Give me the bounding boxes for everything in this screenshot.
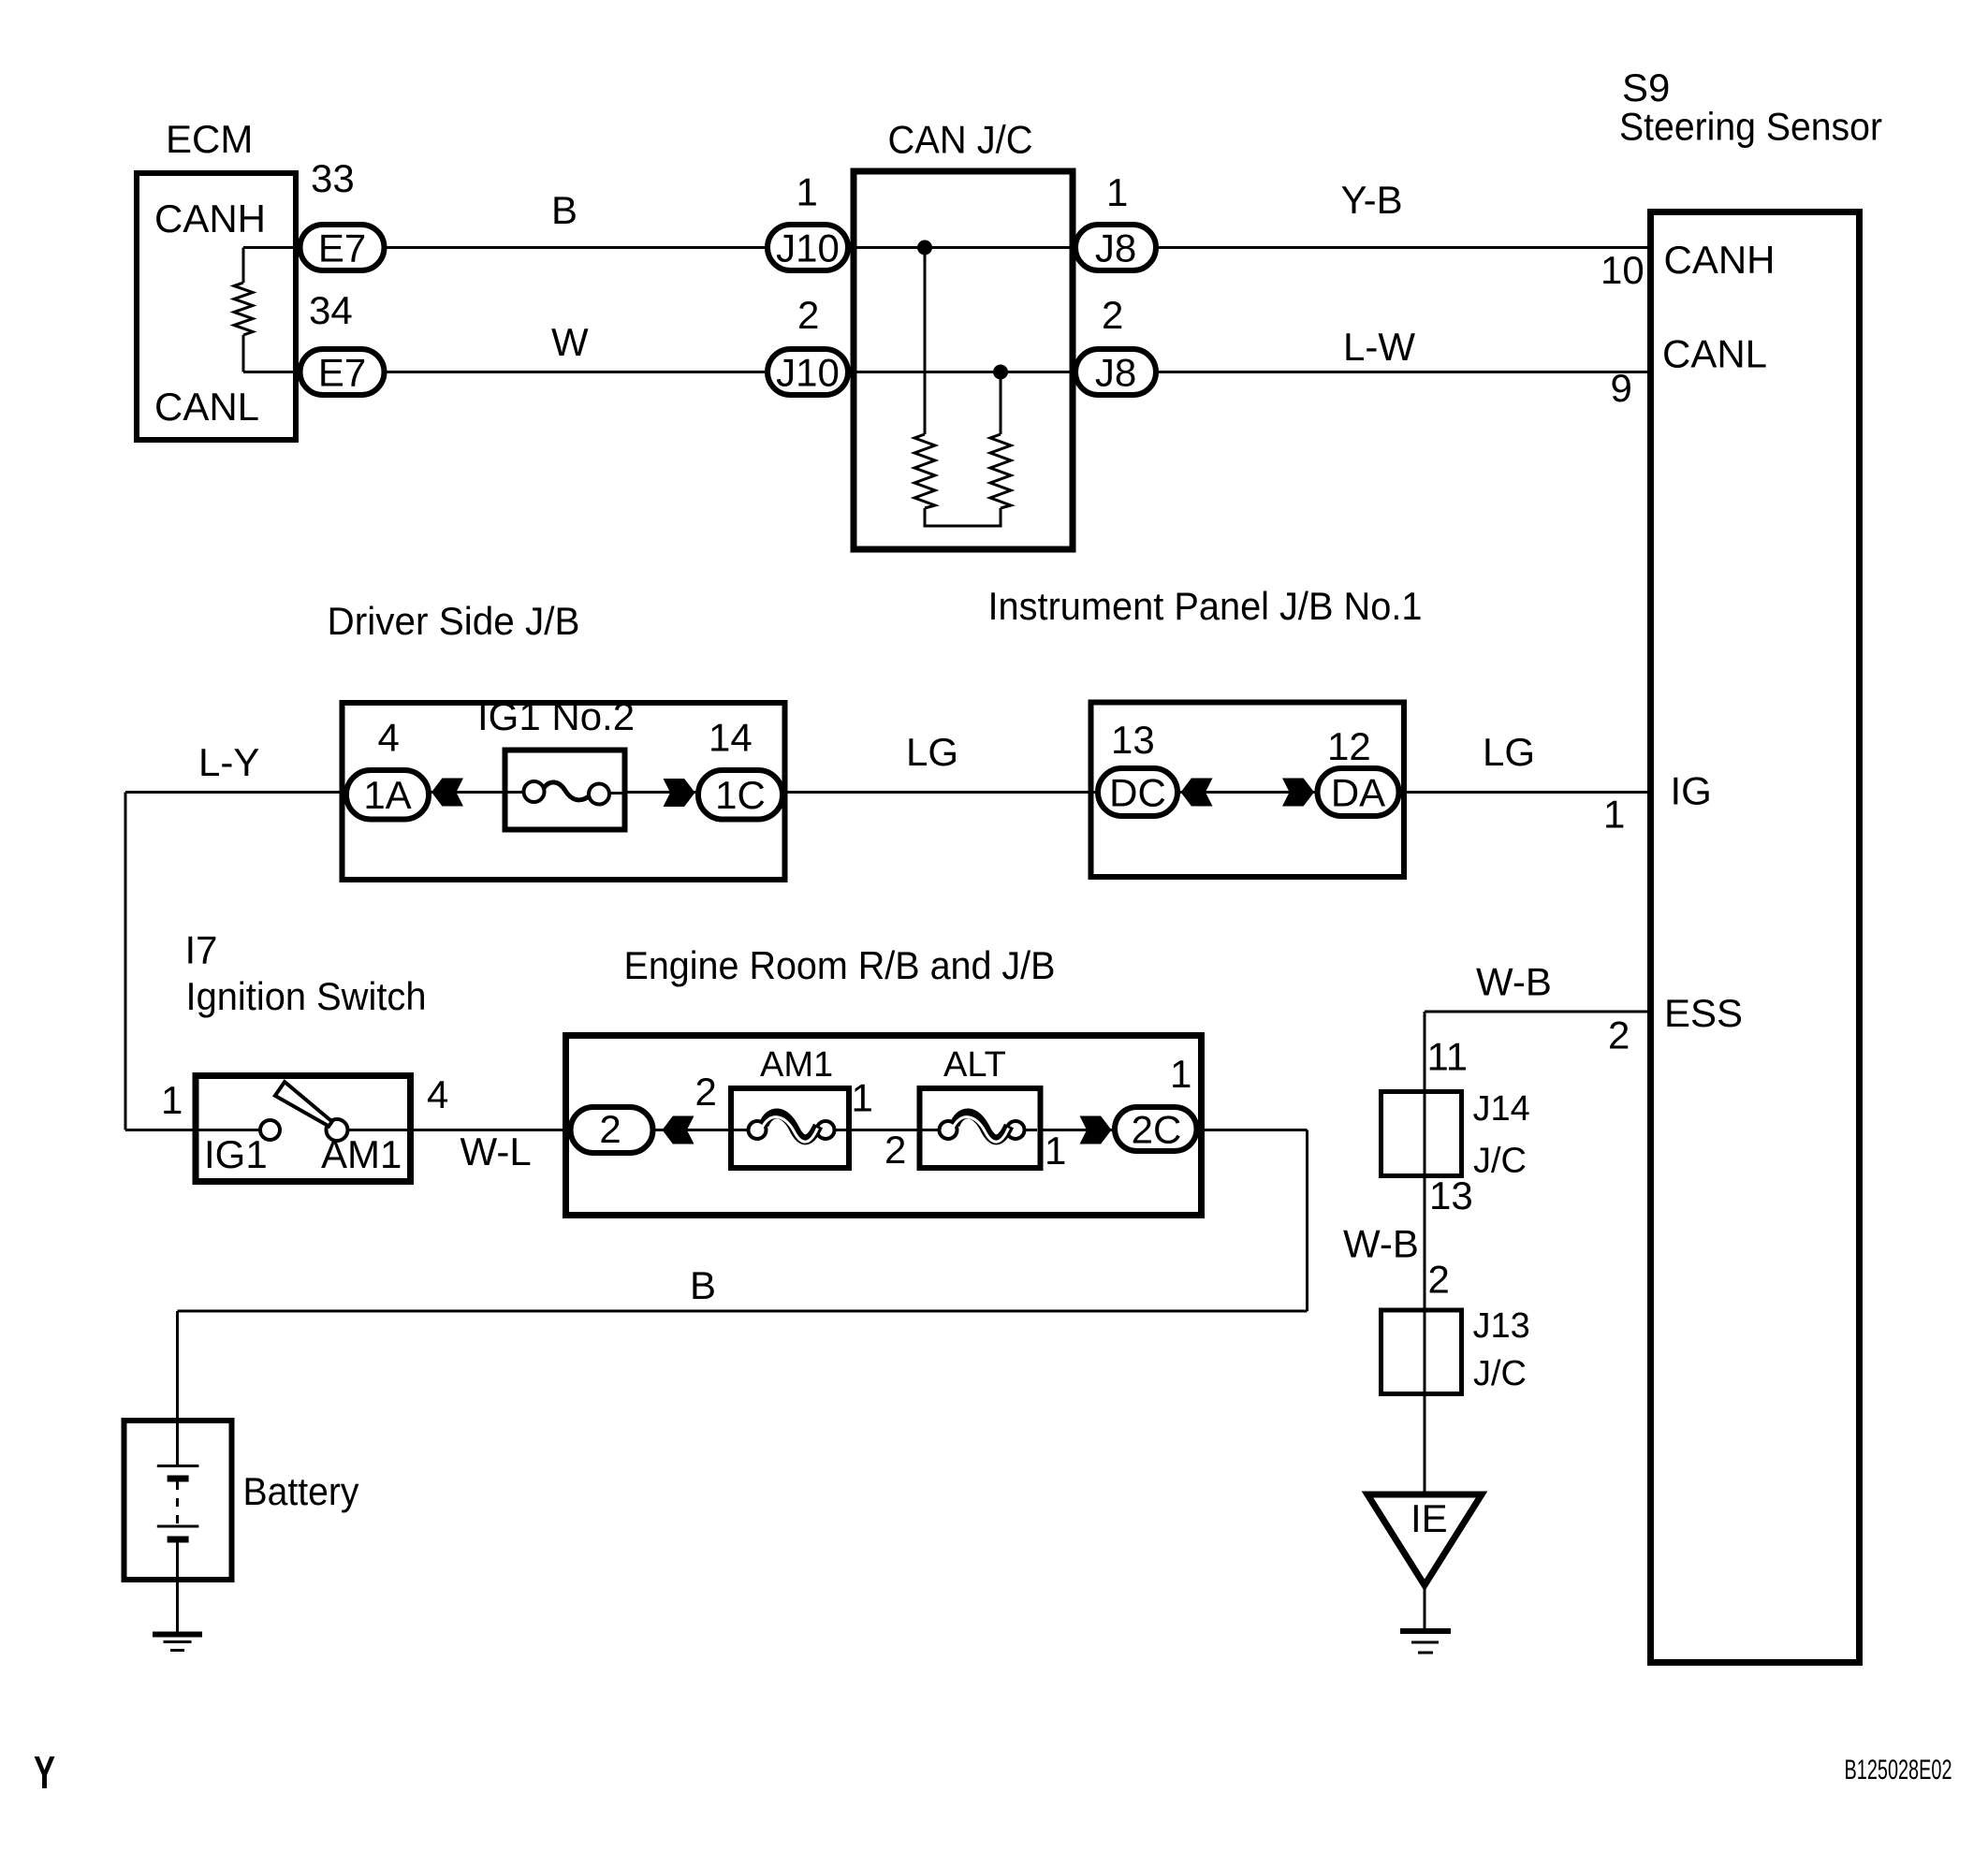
svg-text:2: 2	[797, 293, 819, 337]
svg-text:IG1 No.2: IG1 No.2	[477, 694, 635, 738]
arrow into connector 2	[663, 1116, 694, 1144]
connector E7 pin 34	[300, 349, 385, 395]
fuse IG1 No.2 box	[505, 751, 625, 830]
svg-text:W-L: W-L	[460, 1130, 532, 1173]
svg-text:IG: IG	[1671, 769, 1712, 813]
Engine Room R/B and J/B box	[566, 1036, 1202, 1216]
svg-text:W-B: W-B	[1343, 1222, 1419, 1266]
svg-text:LG: LG	[906, 730, 958, 774]
svg-text:1: 1	[1045, 1129, 1066, 1173]
wire into ignition switch pin 1	[125, 1129, 260, 1131]
wire left vertical L-Y down to ignition switch	[124, 793, 127, 1130]
svg-text:AM1: AM1	[760, 1045, 833, 1085]
svg-text:9: 9	[1611, 366, 1632, 410]
wire CAN J/C resistor bottoms	[925, 508, 1001, 526]
connector DC pin 13	[1098, 768, 1177, 816]
svg-text:B: B	[551, 188, 577, 232]
svg-text:4: 4	[427, 1072, 448, 1116]
svg-text:10: 10	[1601, 248, 1644, 292]
svg-text:1: 1	[1603, 793, 1625, 837]
svg-text:B: B	[690, 1263, 716, 1307]
wire ECM internal CANL lead	[242, 335, 245, 372]
svg-text:14: 14	[709, 716, 753, 760]
svg-text:Ignition Switch: Ignition Switch	[186, 974, 427, 1018]
wire ALT lead left	[923, 1129, 942, 1131]
resistor ECM terminating	[234, 283, 253, 335]
svg-text:CANH: CANH	[1664, 238, 1776, 282]
ECM box	[137, 173, 296, 440]
svg-text:13: 13	[1111, 718, 1155, 762]
battery symbol	[157, 1465, 199, 1467]
steering sensor S9 box	[1651, 212, 1860, 1663]
svg-text:L-Y: L-Y	[198, 740, 259, 784]
svg-text:2: 2	[1102, 293, 1123, 337]
fusible link ALT box	[920, 1088, 1041, 1168]
connector J10 pin 2	[767, 349, 848, 395]
connector 2C pin 1	[1115, 1107, 1197, 1151]
svg-text:Instrument Panel J/B No.1: Instrument Panel J/B No.1	[988, 584, 1423, 628]
wire ESS (W-B)	[1425, 1011, 1651, 1013]
fusible link AM1 element	[749, 1121, 767, 1139]
wire 2C down	[1306, 1130, 1308, 1312]
svg-text:2: 2	[1428, 1258, 1450, 1302]
Driver Side J/B box	[343, 703, 785, 880]
svg-text:S9: S9	[1622, 66, 1670, 109]
arrow into DA	[1282, 779, 1314, 807]
fusible link AM1 box	[731, 1088, 849, 1168]
connector 2 (engine room)	[571, 1107, 653, 1153]
wire CANL (ECM to S9, colour W / L-W)	[243, 371, 1651, 373]
wire B horizontal	[178, 1310, 1308, 1313]
CAN J/C box	[854, 171, 1073, 549]
svg-text:2: 2	[599, 1107, 621, 1151]
svg-text:2: 2	[1608, 1013, 1630, 1057]
ground battery	[153, 1632, 202, 1638]
arrow into DC	[1181, 779, 1213, 807]
node junction dot CANH	[917, 240, 932, 255]
svg-text:2: 2	[695, 1070, 717, 1114]
svg-text:CANL: CANL	[1662, 332, 1767, 376]
resistor CAN J/C no.1	[914, 434, 935, 508]
ignition switch lever	[275, 1082, 332, 1126]
connector 1A pin 4	[346, 770, 429, 820]
svg-text:J13: J13	[1473, 1306, 1530, 1346]
svg-text:ECM: ECM	[166, 117, 253, 161]
wire battery positive lead	[176, 1311, 179, 1466]
resistor CAN J/C no.2	[990, 434, 1011, 508]
connector J8 pin 1	[1075, 225, 1156, 270]
svg-text:2C: 2C	[1132, 1108, 1182, 1152]
wire ECM internal CANH lead	[242, 248, 245, 284]
wire W-B vertical through J14 and J13	[1424, 1012, 1426, 1494]
ignition switch IG1 contact	[260, 1120, 280, 1140]
junction connector J13 box	[1381, 1310, 1462, 1394]
svg-text:E7: E7	[318, 351, 366, 395]
svg-text:I7: I7	[185, 928, 218, 972]
junction connector J14 box	[1381, 1092, 1462, 1176]
battery box	[124, 1421, 232, 1580]
svg-text:J8: J8	[1095, 351, 1136, 395]
svg-text:CANL: CANL	[154, 385, 259, 429]
connector 1C pin 14	[698, 770, 782, 820]
wire IG row (L-Y / LG to S9 pin 1)	[125, 791, 1651, 794]
svg-text:12: 12	[1327, 724, 1371, 768]
svg-text:ALT: ALT	[943, 1045, 1006, 1085]
arrow into 1A	[431, 779, 463, 807]
svg-text:1: 1	[852, 1076, 873, 1120]
svg-text:E7: E7	[318, 226, 366, 270]
svg-text:Battery: Battery	[243, 1469, 359, 1513]
fusible link ALT element	[940, 1121, 957, 1139]
svg-text:Y: Y	[34, 1748, 55, 1799]
svg-text:J/C: J/C	[1473, 1354, 1527, 1393]
ignition switch AM1 contact	[327, 1119, 348, 1141]
arrow into 1C	[664, 779, 695, 807]
svg-text:Steering Sensor: Steering Sensor	[1619, 105, 1882, 149]
svg-text:1A: 1A	[363, 773, 411, 817]
svg-text:L-W: L-W	[1343, 325, 1415, 369]
connector J8 pin 2	[1075, 349, 1156, 395]
svg-text:J10: J10	[776, 226, 840, 270]
ground IE triangle	[1367, 1494, 1482, 1585]
connector DA pin 12	[1318, 768, 1399, 816]
wire IE lead	[1424, 1585, 1426, 1629]
svg-text:34: 34	[309, 288, 353, 332]
svg-text:ESS: ESS	[1664, 991, 1743, 1035]
svg-text:1: 1	[797, 170, 818, 214]
svg-text:J14: J14	[1473, 1089, 1530, 1129]
svg-text:1C: 1C	[715, 773, 766, 817]
svg-text:B125028E02: B125028E02	[1845, 1755, 1952, 1785]
wire CAN J/C internal lead 2	[1000, 372, 1002, 435]
wire battery negative lead	[176, 1542, 179, 1633]
svg-text:33: 33	[311, 156, 355, 200]
svg-text:J10: J10	[776, 351, 840, 395]
svg-text:Engine Room R/B and J/B: Engine Room R/B and J/B	[624, 943, 1056, 987]
svg-text:DC: DC	[1109, 771, 1166, 815]
ignition switch I7 box	[196, 1076, 411, 1182]
wire AM1 lead left	[734, 1129, 750, 1131]
svg-text:1: 1	[161, 1078, 183, 1122]
svg-text:AM1: AM1	[321, 1132, 402, 1176]
wire CAN J/C internal lead 1	[924, 248, 927, 435]
wire AM1 lead right	[833, 1129, 846, 1131]
svg-text:2: 2	[884, 1128, 906, 1172]
svg-text:W-B: W-B	[1476, 960, 1552, 1004]
svg-text:CANH: CANH	[154, 197, 266, 240]
node junction dot CANL	[993, 365, 1008, 380]
svg-text:W: W	[551, 320, 589, 364]
svg-text:13: 13	[1429, 1173, 1473, 1217]
svg-text:LG: LG	[1483, 730, 1535, 774]
wire ALT lead right	[1022, 1129, 1037, 1131]
svg-text:J/C: J/C	[1473, 1142, 1527, 1181]
svg-text:1: 1	[1106, 170, 1128, 214]
svg-text:IG1: IG1	[204, 1132, 268, 1176]
svg-text:CAN J/C: CAN J/C	[888, 118, 1033, 162]
ground IE	[1400, 1628, 1451, 1634]
svg-text:IE: IE	[1411, 1496, 1448, 1540]
svg-text:DA: DA	[1331, 771, 1385, 815]
svg-text:1: 1	[1170, 1052, 1191, 1096]
wire W-L row from AM1 contact to engine room 2C	[348, 1129, 1308, 1131]
Instrument Panel J/B No.1 box	[1091, 703, 1405, 878]
arrow into 2C	[1080, 1116, 1112, 1144]
svg-text:Driver Side J/B: Driver Side J/B	[328, 599, 580, 643]
connector J10 pin 1	[767, 225, 848, 270]
wire fuse lead right	[608, 792, 622, 794]
wire fuse lead left	[508, 791, 525, 794]
svg-text:4: 4	[378, 716, 400, 760]
wire CANH (ECM to S9, colour B / Y-B)	[243, 246, 1651, 249]
svg-text:J8: J8	[1095, 226, 1136, 270]
svg-text:11: 11	[1427, 1035, 1469, 1079]
svg-text:Y-B: Y-B	[1341, 178, 1403, 222]
connector E7 pin 33	[300, 225, 385, 270]
fuse IG1 No.2 element	[524, 781, 545, 802]
